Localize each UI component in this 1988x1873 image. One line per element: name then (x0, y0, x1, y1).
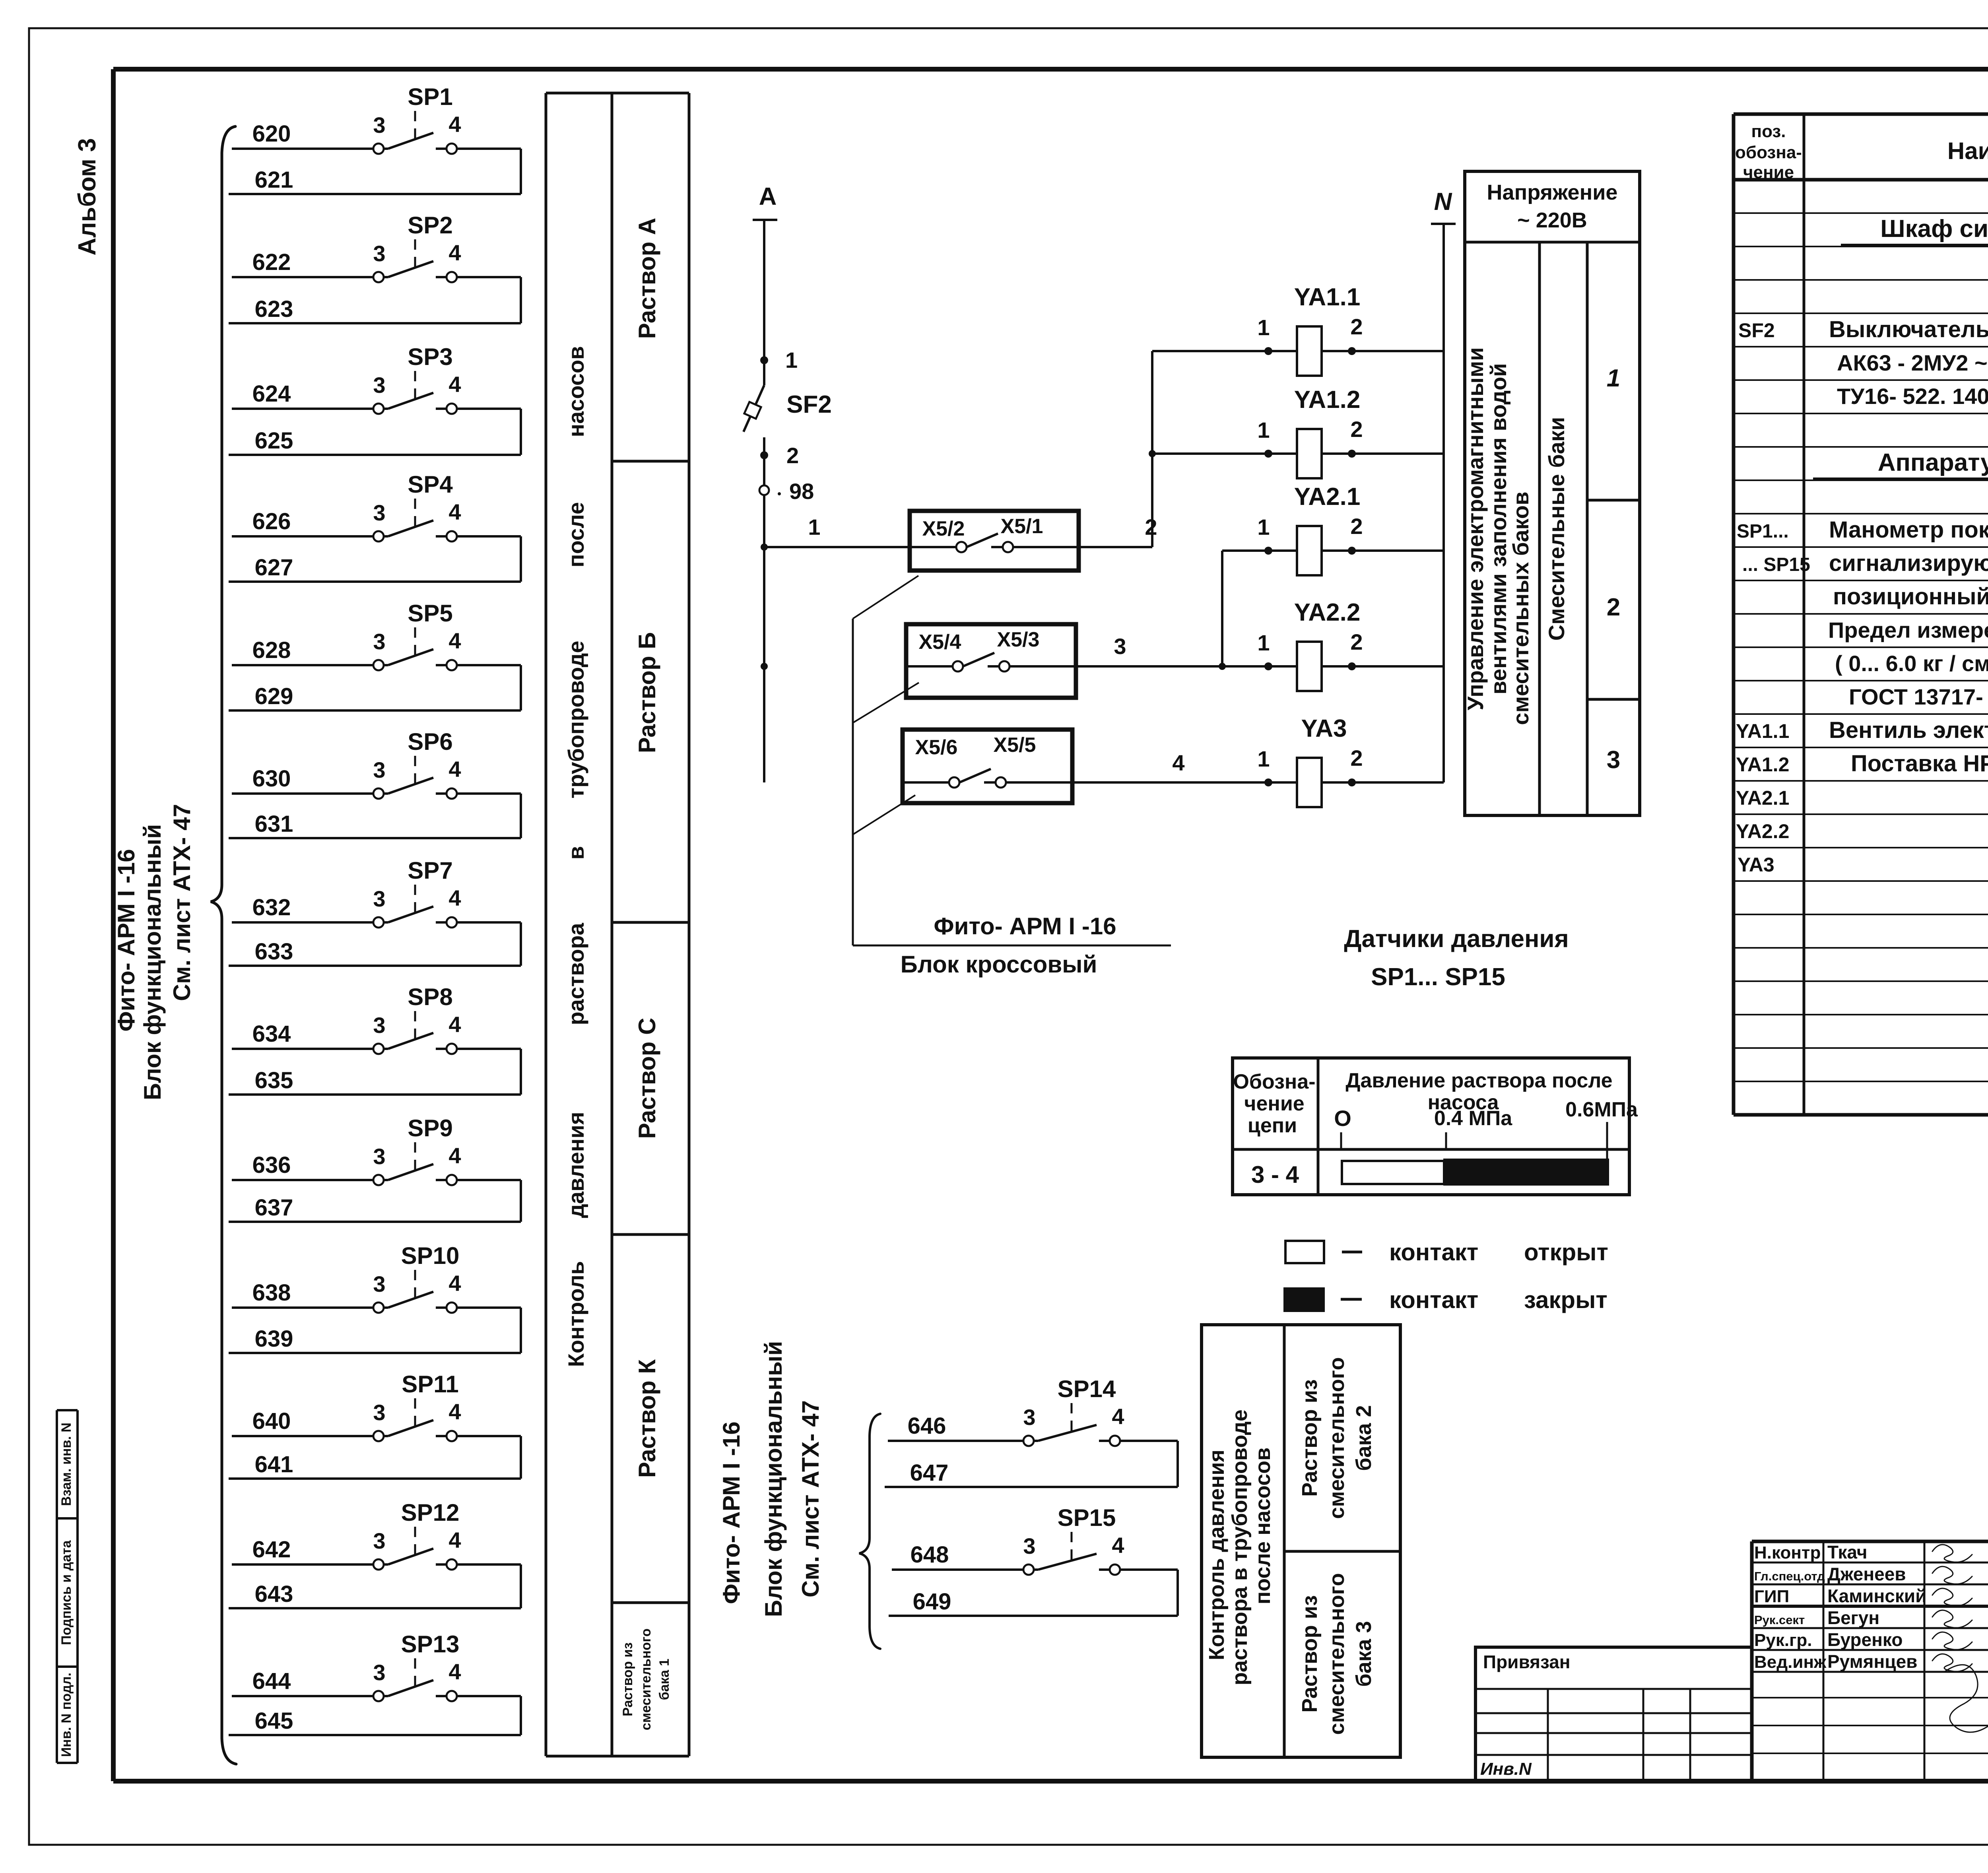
svg-text:Раствор из: Раствор из (1298, 1379, 1322, 1496)
svg-text:Контроль давления: Контроль давления (1205, 1450, 1229, 1660)
svg-text:Раствор из: Раствор из (620, 1642, 635, 1716)
svg-text:4: 4 (448, 1528, 461, 1553)
svg-text:4: 4 (448, 1399, 461, 1424)
svg-text:640: 640 (252, 1408, 291, 1434)
svg-text:3: 3 (373, 1013, 385, 1038)
svg-text:649: 649 (913, 1589, 951, 1615)
svg-text:контакт: контакт (1389, 1287, 1478, 1313)
svg-text:цепи: цепи (1248, 1114, 1297, 1137)
svg-text:SF2: SF2 (1738, 319, 1775, 342)
svg-text:4: 4 (448, 1143, 461, 1168)
svg-text:Напряжение: Напряжение (1487, 181, 1618, 204)
svg-text:648: 648 (911, 1542, 949, 1568)
svg-text:поз.: поз. (1751, 122, 1786, 141)
svg-text:3: 3 (373, 886, 385, 911)
svg-text:2: 2 (786, 443, 799, 468)
svg-text:Смесительные баки: Смесительные баки (1544, 417, 1569, 641)
svg-text:1: 1 (785, 347, 798, 373)
svg-text:Подпись и дата: Подпись и дата (59, 1540, 74, 1645)
svg-text:3: 3 (373, 629, 385, 654)
svg-text:2: 2 (1607, 594, 1620, 621)
svg-text:смесительного: смесительного (639, 1628, 654, 1730)
svg-text:YA2.1: YA2.1 (1736, 787, 1789, 809)
svg-text:Буренко: Буренко (1827, 1629, 1903, 1650)
svg-text:Взам. инв. N: Взам. инв. N (59, 1423, 74, 1506)
svg-text:4: 4 (448, 112, 461, 137)
svg-text:SP15: SP15 (1058, 1504, 1116, 1531)
svg-text:Инв. N подл.: Инв. N подл. (59, 1673, 74, 1757)
svg-text:634: 634 (252, 1021, 291, 1047)
svg-text:Фито- АРМ I -16: Фито- АРМ I -16 (113, 849, 140, 1031)
svg-text:X5/3: X5/3 (997, 628, 1040, 651)
svg-text:SP1...: SP1... (1737, 521, 1789, 542)
svg-text:620: 620 (252, 121, 291, 147)
svg-text:YA3: YA3 (1301, 715, 1347, 742)
svg-text:3: 3 (1023, 1405, 1035, 1430)
svg-text:1: 1 (1257, 630, 1270, 655)
svg-text:открыт: открыт (1524, 1239, 1608, 1265)
svg-text:X5/6: X5/6 (915, 736, 958, 759)
svg-text:638: 638 (252, 1280, 291, 1306)
svg-text:636: 636 (252, 1152, 291, 1178)
svg-text:4: 4 (448, 1012, 461, 1037)
svg-text:1: 1 (1257, 315, 1270, 340)
svg-text:3 - 4: 3 - 4 (1251, 1161, 1299, 1188)
svg-text:Фито- АРМ I -16: Фито- АРМ I -16 (934, 913, 1116, 939)
svg-text:3: 3 (1023, 1533, 1035, 1559)
svg-text:после насосов: после насосов (1251, 1448, 1275, 1605)
svg-text:X5/5: X5/5 (994, 734, 1036, 757)
svg-text:4: 4 (448, 240, 461, 265)
svg-text:3: 3 (373, 241, 385, 266)
svg-text:Каминский: Каминский (1827, 1586, 1926, 1606)
svg-text:Раствор из: Раствор из (1298, 1595, 1322, 1712)
svg-text:SP14: SP14 (1058, 1376, 1116, 1402)
svg-text:YA2.2: YA2.2 (1294, 599, 1361, 626)
svg-text:Бегун: Бегун (1827, 1607, 1879, 1628)
svg-text:смесительных баков: смесительных баков (1508, 491, 1533, 725)
svg-text:смесительного: смесительного (1325, 1357, 1349, 1519)
svg-text:4: 4 (1112, 1533, 1124, 1558)
svg-text:Блок кроссовый: Блок кроссовый (901, 951, 1097, 978)
svg-text:3: 3 (373, 1400, 385, 1425)
svg-text:YA1.1: YA1.1 (1736, 720, 1789, 742)
svg-text:3: 3 (373, 1271, 385, 1297)
svg-text:Раствор К: Раствор К (634, 1359, 660, 1478)
svg-text:3: 3 (373, 757, 385, 782)
svg-text:Дженеев: Дженеев (1827, 1564, 1906, 1584)
svg-text:Альбом 3: Альбом 3 (74, 138, 101, 255)
svg-text:647: 647 (910, 1460, 949, 1486)
svg-text:626: 626 (252, 509, 291, 534)
svg-text:бака 1: бака 1 (657, 1659, 672, 1700)
svg-text:629: 629 (255, 683, 293, 709)
svg-text:0.4 МПа: 0.4 МПа (1434, 1107, 1512, 1130)
svg-text:625: 625 (255, 428, 293, 454)
svg-text:SP13: SP13 (401, 1631, 460, 1658)
svg-text:627: 627 (255, 555, 293, 580)
svg-text:позиционный ЭКМ - 1У: позиционный ЭКМ - 1У (1833, 584, 1988, 609)
svg-text:4: 4 (448, 1659, 461, 1684)
svg-text:98: 98 (789, 479, 814, 504)
svg-text:Рук.сект: Рук.сект (1754, 1613, 1805, 1627)
svg-text:обозна-: обозна- (1735, 143, 1802, 162)
svg-text:643: 643 (255, 1581, 293, 1607)
svg-text:раствора в трубопроводе: раствора в трубопроводе (1228, 1409, 1252, 1685)
svg-text:бака 3: бака 3 (1352, 1621, 1376, 1687)
svg-text:Обозна-: Обозна- (1233, 1070, 1315, 1093)
svg-text:Предел измерения 0...0.6 МПа: Предел измерения 0...0.6 МПа (1828, 617, 1988, 642)
svg-text:вентилями заполнения водой: вентилями заполнения водой (1486, 363, 1511, 694)
svg-text:Раствор С: Раствор С (634, 1018, 660, 1139)
svg-text:SP9: SP9 (408, 1115, 452, 1141)
svg-text:О: О (1334, 1106, 1351, 1131)
svg-text:SP8: SP8 (408, 984, 452, 1010)
svg-text:SP10: SP10 (401, 1242, 460, 1269)
svg-text:Румянцев: Румянцев (1827, 1651, 1917, 1672)
svg-text:2: 2 (1350, 417, 1363, 442)
svg-text:1: 1 (1257, 514, 1270, 540)
svg-text:2: 2 (1350, 514, 1363, 539)
svg-text:АК63 - 2МУ2 ~ 220В Iн =: АК63 - 2МУ2 ~ 220В Iн = 0.63А (1837, 350, 1988, 375)
svg-text:4: 4 (1112, 1404, 1124, 1429)
svg-text:~ 220В: ~ 220В (1517, 208, 1587, 232)
svg-text:X5/4: X5/4 (919, 631, 961, 654)
svg-text:Шкаф силовой ШР16: Шкаф силовой ШР16 (1880, 215, 1988, 243)
svg-text:контакт: контакт (1389, 1239, 1478, 1265)
svg-text:ТУ16- 522. 140-78: ТУ16- 522. 140-78 (1837, 384, 1988, 409)
svg-text:642: 642 (252, 1537, 291, 1562)
svg-text:A: A (759, 183, 777, 210)
svg-text:Раствор Б: Раствор Б (634, 632, 660, 753)
svg-text:YA3: YA3 (1738, 854, 1774, 876)
svg-text:YA2.1: YA2.1 (1294, 483, 1361, 510)
svg-text:Вентиль электромагнитный: Вентиль электромагнитный (1829, 717, 1988, 743)
svg-text:SP3: SP3 (408, 344, 452, 370)
svg-text:Контроль: Контроль (563, 1261, 588, 1367)
svg-text:Привязан: Привязан (1483, 1652, 1571, 1672)
svg-text:См. лист АТХ- 47: См. лист АТХ- 47 (797, 1400, 824, 1597)
svg-text:смесительного: смесительного (1325, 1573, 1349, 1735)
svg-text:1: 1 (1257, 417, 1270, 443)
svg-text:SP5: SP5 (408, 600, 452, 627)
svg-text:Рук.гр.: Рук.гр. (1754, 1630, 1812, 1650)
svg-text:SP12: SP12 (401, 1499, 460, 1526)
svg-text:раствора: раствора (563, 923, 588, 1025)
svg-text:Давление раствора после: Давление раствора после (1345, 1069, 1612, 1092)
svg-text:YA1.1: YA1.1 (1294, 283, 1361, 311)
svg-text:628: 628 (252, 637, 291, 663)
svg-text:Гл.спец.отд: Гл.спец.отд (1754, 1569, 1825, 1583)
svg-text:631: 631 (255, 811, 293, 837)
svg-text:насосов: насосов (563, 346, 588, 437)
svg-text:Блок функциональный: Блок функциональный (760, 1341, 787, 1617)
svg-text:закрыт: закрыт (1524, 1287, 1607, 1313)
svg-text:X5/1: X5/1 (1001, 515, 1043, 538)
svg-text:Раствор А: Раствор А (634, 218, 660, 339)
svg-text:624: 624 (252, 381, 291, 407)
svg-text:после: после (563, 502, 588, 567)
svg-text:SF2: SF2 (786, 391, 832, 418)
svg-text:4: 4 (1172, 750, 1184, 775)
svg-text:1: 1 (1257, 746, 1270, 771)
svg-text:Н.контр: Н.контр (1754, 1543, 1821, 1562)
svg-text:Аппаратура по месту: Аппаратура по месту (1878, 449, 1988, 476)
svg-text:621: 621 (255, 167, 293, 193)
svg-text:3: 3 (1114, 634, 1126, 659)
svg-text:SP4: SP4 (408, 471, 453, 498)
svg-text:0.6МПа: 0.6МПа (1565, 1098, 1638, 1121)
svg-text:Управление электромагнитными: Управление электромагнитными (1463, 347, 1488, 710)
svg-text:Выключатель автоматический: Выключатель автоматический (1829, 316, 1988, 342)
svg-text:646: 646 (908, 1413, 946, 1439)
svg-text:ГОСТ 13717- 84: ГОСТ 13717- 84 (1849, 684, 1988, 709)
svg-text:3: 3 (373, 373, 385, 398)
svg-text:622: 622 (252, 249, 291, 275)
svg-text:630: 630 (252, 766, 291, 792)
svg-text:Вед.инж: Вед.инж (1754, 1652, 1827, 1672)
svg-text:SP1: SP1 (408, 83, 452, 110)
svg-text:YA2.2: YA2.2 (1736, 820, 1789, 842)
svg-text:N: N (1434, 188, 1452, 215)
svg-text:3: 3 (373, 1528, 385, 1553)
svg-text:4: 4 (448, 372, 461, 397)
svg-text:645: 645 (255, 1708, 293, 1734)
svg-text:Поставка НРБ: Поставка НРБ (1851, 751, 1988, 776)
svg-text:3: 3 (373, 113, 385, 138)
svg-text:632: 632 (252, 895, 291, 920)
svg-text:трубопроводе: трубопроводе (563, 641, 588, 799)
svg-text:2: 2 (1350, 314, 1363, 339)
svg-text:YA1.2: YA1.2 (1294, 386, 1361, 413)
svg-text:X5/2: X5/2 (922, 517, 965, 540)
svg-text:ГИП: ГИП (1754, 1587, 1789, 1606)
svg-text:633: 633 (255, 939, 293, 965)
svg-text:SP7: SP7 (408, 857, 452, 884)
svg-text:1: 1 (1607, 365, 1620, 392)
svg-text:Манометр показывающий: Манометр показывающий (1829, 517, 1988, 543)
svg-text:635: 635 (255, 1068, 293, 1093)
svg-text:... SP15: ... SP15 (1742, 554, 1810, 575)
svg-text:3: 3 (373, 500, 385, 525)
svg-text:Датчики давления: Датчики давления (1344, 925, 1569, 953)
svg-text:Фито- АРМ I -16: Фито- АРМ I -16 (718, 1421, 745, 1604)
svg-text:SP6: SP6 (408, 728, 452, 755)
svg-text:641: 641 (255, 1452, 293, 1477)
svg-text:4: 4 (448, 885, 461, 910)
svg-text:YA1.2: YA1.2 (1736, 753, 1789, 776)
svg-text:4: 4 (448, 499, 461, 524)
svg-text:2: 2 (1350, 629, 1363, 654)
svg-text:637: 637 (255, 1195, 293, 1221)
svg-text:3: 3 (1607, 746, 1620, 774)
svg-text:639: 639 (255, 1326, 293, 1352)
svg-text:в: в (563, 846, 588, 860)
svg-text:4: 4 (448, 628, 461, 653)
svg-text:SP2: SP2 (408, 212, 452, 239)
svg-text:Наименование: Наименование (1947, 138, 1988, 164)
svg-text:3: 3 (373, 1660, 385, 1685)
svg-text:См. лист АТХ- 47: См. лист АТХ- 47 (169, 804, 195, 1001)
svg-text:SP11: SP11 (402, 1371, 458, 1397)
svg-text:3: 3 (373, 1144, 385, 1169)
svg-text:Блок функциональный: Блок функциональный (139, 824, 166, 1101)
svg-text:1: 1 (808, 514, 820, 540)
svg-text:чение: чение (1244, 1092, 1304, 1115)
svg-text:Ткач: Ткач (1827, 1542, 1868, 1562)
svg-text:644: 644 (252, 1668, 291, 1694)
svg-text:чение: чение (1743, 163, 1794, 182)
svg-text:4: 4 (448, 757, 461, 782)
svg-text:2: 2 (1350, 745, 1363, 771)
svg-text:( 0... 6.0 кг / см² ): ( 0... 6.0 кг / см² ) (1835, 651, 1988, 676)
svg-text:623: 623 (255, 296, 293, 322)
svg-text:давления: давления (563, 1112, 588, 1218)
svg-text:SP1... SP15: SP1... SP15 (1371, 963, 1505, 991)
svg-text:4: 4 (448, 1271, 461, 1296)
svg-text:сигнализирующий двух -: сигнализирующий двух - (1829, 550, 1988, 576)
svg-text:бака 2: бака 2 (1352, 1405, 1376, 1471)
svg-text:Инв.N: Инв.N (1480, 1759, 1532, 1779)
